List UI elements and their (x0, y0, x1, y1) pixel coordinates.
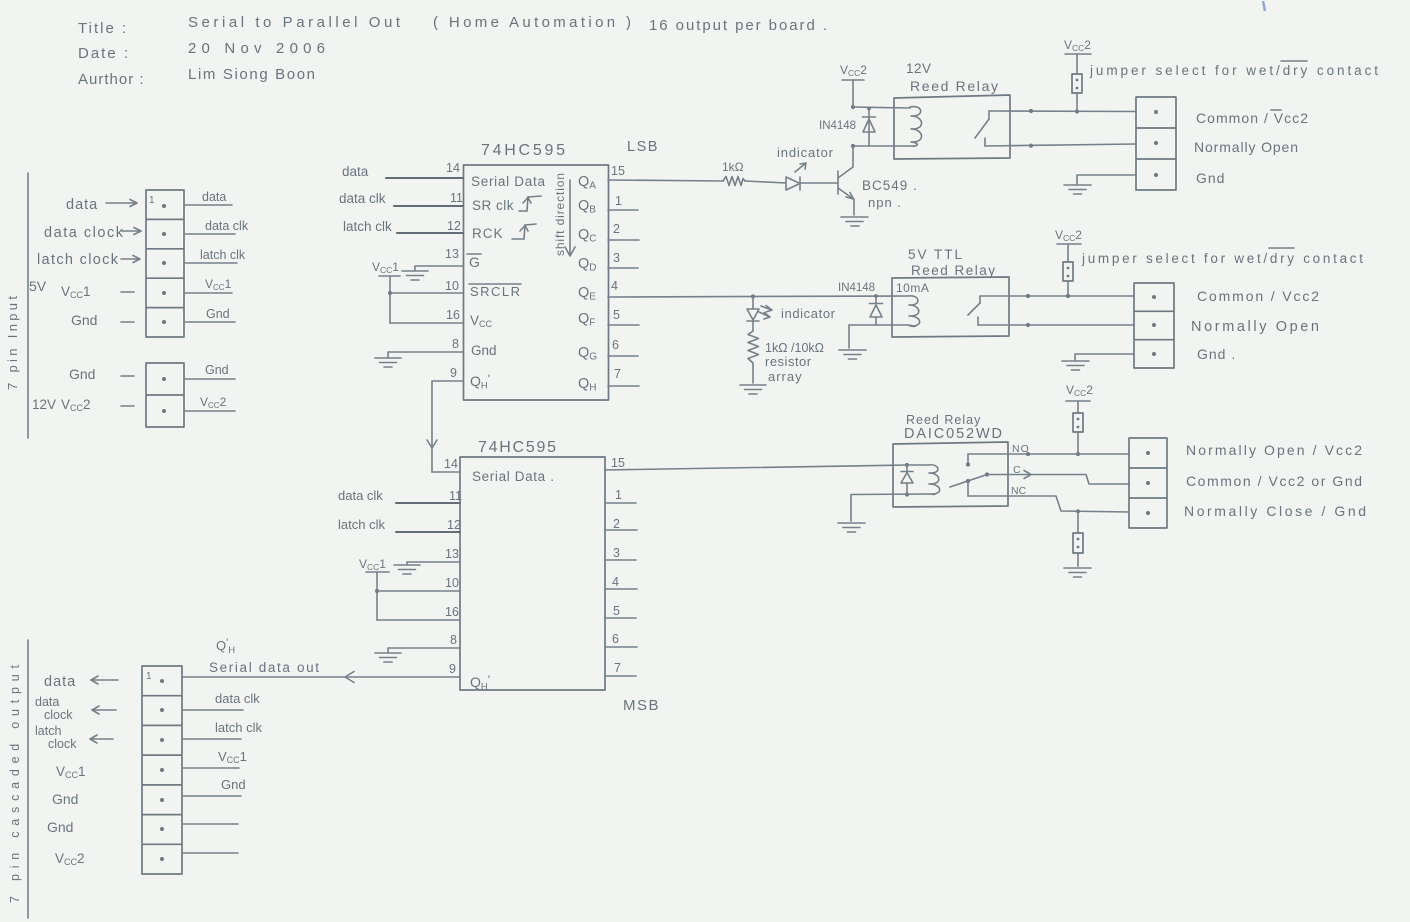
svg-text:8: 8 (452, 337, 459, 351)
wire coil bottom to collector (853, 145, 910, 147)
junction Vcc2 coil top (851, 105, 855, 109)
resistor R1 1k (723, 177, 745, 186)
wire Vcc2 to coil top (853, 107, 910, 108)
connector J2 body (1136, 97, 1176, 190)
svg-text:12V: 12V (32, 397, 56, 412)
svg-text:BC549 .: BC549 . (862, 178, 918, 193)
wire latch clk out of J1 (184, 248, 246, 263)
wire stub QD (608, 267, 638, 269)
relay K3 NO contact (966, 454, 970, 467)
wire data clk to U2 pin11 (396, 502, 460, 504)
jumper JP3 (1073, 413, 1083, 432)
junction diode top (867, 107, 871, 111)
svg-text:5: 5 (613, 308, 620, 322)
overline dry 2 (1269, 247, 1294, 249)
wire stub QG (608, 355, 638, 357)
wire K3 NC out with jog (968, 496, 1129, 512)
svg-text:Gnd: Gnd (205, 363, 229, 377)
svg-text:1kΩ /10kΩ: 1kΩ /10kΩ (765, 341, 824, 355)
wire Vcc1 to U1 pin16 (390, 322, 463, 324)
svg-text:9: 9 (449, 662, 456, 676)
junction K2 NO (1026, 323, 1030, 327)
svg-text:latch clock: latch clock (37, 252, 119, 268)
wire K3 coil bottom to ground (851, 494, 928, 521)
svg-text:Gnd: Gnd (206, 307, 230, 321)
svg-text:20 Nov 2006: 20 Nov 2006 (188, 40, 325, 57)
wire Vcc1 to U2 pin16 (377, 619, 460, 621)
wire stub QC (608, 239, 639, 241)
svg-text:latch clk: latch clk (200, 248, 246, 262)
LED D3 arrows (759, 306, 772, 320)
svg-text:latch clk: latch clk (338, 517, 385, 532)
ground at U1 pin8 (375, 358, 401, 367)
wire latch clk to U1 pin12 (397, 232, 463, 234)
svg-text:14: 14 (444, 457, 458, 471)
wire J3 pin3 to ground (1075, 354, 1134, 360)
wire Gnd out of J1 lower (184, 363, 235, 379)
wire U1 pin8 to ground (388, 352, 463, 357)
svg-text:3: 3 (613, 546, 620, 560)
7 pin cascaded output bracket line (27, 640, 29, 918)
svg-text:indicator: indicator (777, 145, 834, 160)
svg-text:Gnd: Gnd (69, 366, 95, 382)
arrowhead K3 C wire (1024, 471, 1031, 479)
svg-text:Normally Open: Normally Open (1191, 319, 1319, 335)
wire K3 NO out (968, 453, 1129, 455)
connector J4 body (1129, 438, 1167, 528)
node data clock out label (35, 695, 73, 722)
wire Vcc1 to U2 pin10 (377, 590, 460, 592)
connector J3 body (1134, 283, 1174, 368)
svg-text:Common / Vcc2 or Gnd: Common / Vcc2 or Gnd (1186, 473, 1362, 489)
junction indicator branch (751, 294, 755, 298)
connector J1 upper body (146, 190, 184, 337)
junction K1 common (1029, 109, 1033, 113)
wire data clk to U1 pin11 (394, 205, 463, 207)
power Vcc2 symbol output2 (1055, 228, 1082, 262)
ground at J3 pin3 (1062, 361, 1089, 370)
wire U2 pin15 to relay3 (605, 465, 907, 470)
svg-text:5V TTL: 5V TTL (908, 247, 964, 262)
resistor R2 array vertical (748, 321, 759, 383)
svg-text:DAIC052WD: DAIC052WD (904, 426, 1002, 442)
wire stub U2 pin4 (605, 588, 637, 590)
svg-text:data clk: data clk (205, 219, 249, 233)
svg-text:clock: clock (48, 737, 77, 751)
svg-text:Lim Siong Boon: Lim Siong Boon (188, 66, 315, 83)
svg-text:data: data (202, 190, 226, 204)
svg-text:Gnd: Gnd (71, 312, 97, 328)
junction JP2 common (1066, 294, 1070, 298)
junction Vcc1 to pin10 (388, 291, 392, 295)
svg-text:13: 13 (445, 547, 459, 561)
wire K1 common out (989, 110, 1136, 113)
arrowhead down on cascade wire (427, 440, 437, 448)
svg-text:2: 2 (613, 222, 620, 236)
ground at U2 pin8 (375, 653, 401, 662)
wire K2 NO out (978, 324, 1134, 326)
svg-text:Normally Close / Gnd: Normally Close / Gnd (1184, 503, 1366, 519)
svg-text:array: array (768, 369, 803, 384)
svg-text:1: 1 (615, 194, 622, 208)
junction K1 NO (1029, 144, 1033, 148)
connector J2 pin dots (1154, 110, 1158, 177)
svg-text:IN4148: IN4148 (838, 282, 875, 294)
svg-text:data clk: data clk (215, 691, 260, 706)
ground at R2 (740, 385, 766, 394)
junction K2 common (1026, 294, 1030, 298)
connector J3 pin dots (1152, 295, 1156, 356)
relay K3 blade (950, 472, 989, 487)
pin label SRCLR-bar U1 (469, 284, 521, 299)
ground at D4 (839, 350, 866, 359)
relay K2 switch bottom contact (977, 317, 979, 325)
wire Vcc1 out J5 (182, 749, 247, 768)
svg-text:indicator: indicator (781, 306, 836, 321)
wire data clk out of J1 (184, 219, 249, 234)
wire K1 NO out (985, 144, 1136, 146)
svg-text:15: 15 (611, 456, 625, 470)
shift direction arrow (565, 180, 575, 256)
svg-text:latch clk: latch clk (215, 720, 262, 735)
svg-text:2: 2 (613, 517, 620, 531)
svg-text:QH': QH' (470, 372, 490, 392)
wire dash Vcc2 (121, 405, 134, 407)
wire jumper JP4 to ground (1077, 553, 1079, 566)
wire QA pin15 to resistor (608, 180, 723, 181)
wire K3 coil top (907, 464, 928, 466)
wire arrow latch clock out (90, 735, 113, 743)
svg-text:data clk: data clk (339, 191, 386, 206)
svg-text:LSB: LSB (627, 139, 659, 155)
wire U2 pin13 to ground (407, 562, 460, 564)
junction K3 NC jumper (1076, 509, 1080, 513)
wire arrow data clock out (92, 706, 116, 714)
svg-text:6: 6 (612, 632, 619, 646)
wire stub QH (608, 385, 639, 387)
connector J1 lower body (146, 363, 184, 427)
ground at J2 pin3 (1064, 185, 1091, 194)
svg-text:10mA: 10mA (896, 281, 929, 295)
wire U1 pin13 to ground (415, 266, 463, 270)
wire pin7 out J5 (182, 852, 238, 854)
svg-text:latch clk: latch clk (343, 219, 392, 234)
svg-text:RCK: RCK (472, 226, 504, 241)
wire QE pin4 to relay2 coil (608, 296, 908, 297)
node latch clock out label (35, 724, 77, 751)
relay K2 body (892, 277, 1009, 337)
svg-text:shift direction: shift direction (553, 173, 567, 256)
svg-text:7 pin Input: 7 pin Input (5, 296, 20, 390)
wire data clk out J5 (182, 691, 260, 710)
svg-text:11: 11 (449, 489, 462, 503)
svg-text:16: 16 (445, 605, 459, 619)
wire resistor to LED D1 (745, 181, 786, 183)
power Vcc2 symbol output1 (1064, 38, 1091, 74)
relay K3 coil (928, 465, 940, 495)
svg-text:npn .: npn . (868, 195, 902, 210)
svg-text:Serial Data .: Serial Data . (472, 469, 554, 484)
svg-text:Date :: Date : (78, 45, 130, 62)
junction JP1 common (1075, 109, 1079, 113)
svg-text:data: data (342, 164, 369, 179)
svg-text:16: 16 (446, 308, 460, 322)
svg-text:10: 10 (445, 576, 459, 590)
svg-text:7: 7 (614, 367, 621, 381)
junction K3 NO jumper (1076, 452, 1080, 456)
wire data to U1 pin14 (386, 177, 463, 179)
LED D3 indicator vertical (747, 296, 759, 321)
wire stub U2 pin1 (605, 502, 636, 504)
svg-text:9: 9 (450, 366, 457, 380)
LED D1 indicator (786, 177, 800, 190)
svg-text:data clk: data clk (338, 488, 383, 503)
svg-text:Gnd: Gnd (471, 343, 497, 358)
ground at U2 pin13 (394, 565, 420, 574)
wire arrow data clock in (122, 228, 141, 235)
wire J2 pin3 to ground (1077, 175, 1136, 184)
svg-text:SRCLR: SRCLR (470, 284, 520, 299)
overline dry 1 (1281, 60, 1307, 62)
svg-text:12: 12 (447, 219, 461, 233)
wire D4 bottom to ground (848, 325, 850, 348)
wire cascade into U2 pin14 (432, 471, 460, 473)
connector J5 body (142, 666, 182, 874)
jumper JP1 (1072, 74, 1082, 93)
svg-text:Gnd: Gnd (52, 791, 78, 807)
svg-text:Gnd: Gnd (1196, 170, 1225, 186)
junction K3 diode top (905, 463, 909, 467)
svg-text:1: 1 (146, 671, 152, 682)
junction K3 diode bottom (905, 492, 909, 496)
wire latch clk to U2 pin12 (396, 531, 460, 533)
wire NC junction to jumper JP4 (1077, 511, 1079, 533)
wire stub U2 pin7 (605, 675, 636, 677)
power Vcc2 symbol output3 (1066, 383, 1093, 413)
ground at K3 coil (838, 523, 865, 532)
svg-text:latch: latch (35, 724, 61, 738)
relay K3 body (893, 442, 1008, 507)
overline V 1 (1271, 109, 1281, 111)
svg-text:16 output per board .: 16 output per board . (649, 17, 827, 34)
wire latch clk out J5 (182, 720, 262, 739)
svg-text:8: 8 (450, 633, 457, 647)
wire K2 common out (980, 295, 1134, 297)
wire arrow data in (106, 200, 137, 207)
svg-text:Serial data out: Serial data out (209, 660, 319, 675)
IC U2 body (460, 457, 605, 690)
jumper JP2 (1063, 262, 1073, 281)
junction collector coil bottom (851, 144, 855, 148)
node 12V Vcc2 label (32, 397, 91, 413)
diode D2 1N4148 flyback (863, 108, 876, 146)
ground at U1 pin13 (402, 271, 428, 280)
svg-text:4: 4 (611, 279, 618, 293)
svg-text:Normally Open: Normally Open (1194, 139, 1298, 155)
svg-text:11: 11 (450, 191, 463, 205)
svg-text:Title :: Title : (78, 20, 128, 37)
7 pin input bracket line (27, 173, 29, 438)
svg-text:4: 4 (612, 575, 619, 589)
svg-text:data: data (44, 674, 76, 690)
svg-text:Reed Relay: Reed Relay (906, 413, 981, 427)
svg-text:13: 13 (445, 247, 459, 261)
svg-text:12V: 12V (906, 61, 932, 76)
wire dash Gnd2 (121, 375, 134, 377)
wire jumper JP1 to common (1076, 93, 1078, 111)
svg-text:G: G (469, 254, 480, 270)
wire dash Gnd (121, 321, 134, 323)
svg-text:12: 12 (447, 518, 461, 532)
relay K1 switch top contact (988, 111, 990, 119)
wire arrow latch clock in (121, 256, 140, 263)
relay K1 switch bottom contact (984, 138, 986, 146)
svg-text:Aurthor :: Aurthor : (78, 71, 145, 88)
svg-text:1kΩ: 1kΩ (722, 160, 744, 174)
ground at JP4 (1064, 568, 1091, 577)
jumper JP4 (1073, 533, 1083, 553)
wire Vcc2 out of J1 lower (184, 395, 235, 411)
resistor R2 value label (765, 341, 824, 384)
pin label G-bar U1 (467, 254, 481, 270)
clock edge symbol RCK (512, 224, 536, 239)
svg-text:data clock: data clock (44, 225, 124, 241)
wire jumper JP3 to NO (1077, 432, 1079, 454)
relay K1 coil (910, 107, 922, 147)
svg-text:5: 5 (613, 604, 620, 618)
svg-text:SR clk: SR clk (472, 198, 514, 213)
connector J4 pin dots (1146, 451, 1150, 515)
diode D4 1N4148 (870, 296, 883, 325)
wire stub U2 pin2 (605, 529, 637, 531)
wire jumper JP2 to common (1067, 281, 1069, 296)
relay K1 body (894, 95, 1010, 159)
power Vcc1 symbol U1 (372, 260, 400, 323)
svg-text:74HC595: 74HC595 (481, 142, 565, 159)
junction D4 top (874, 294, 878, 298)
wire stub U2 pin3 (605, 559, 636, 561)
svg-text:Normally Open / Vcc2: Normally Open / Vcc2 (1186, 442, 1362, 458)
wire stub U2 pin5 (605, 617, 636, 619)
relay K1 switch blade (975, 119, 989, 138)
wire dash Vcc1 (121, 291, 134, 293)
svg-text:MSB: MSB (623, 697, 660, 714)
wire Gnd out of J1 (184, 307, 235, 322)
wire stub QF (608, 324, 639, 326)
wire Gnd out J5 (182, 777, 246, 796)
IC U1 body (464, 165, 609, 400)
LED D1 arrow (795, 163, 806, 172)
power Vcc1 symbol U2 (359, 557, 389, 620)
svg-text:1: 1 (615, 488, 622, 502)
svg-text:74HC595: 74HC595 (478, 439, 556, 456)
wire arrow data out (91, 676, 118, 684)
svg-text:6: 6 (612, 338, 619, 352)
relay K3 NC riser (967, 483, 969, 496)
svg-text:Common / Vcc2: Common / Vcc2 (1196, 110, 1308, 126)
svg-text:resistor: resistor (765, 354, 812, 369)
svg-text:clock: clock (44, 708, 73, 722)
wire stub QB (608, 209, 638, 211)
wire data out of J1 (184, 190, 232, 205)
clock edge symbol SR clk (519, 196, 541, 211)
junction K3 NO a (1026, 452, 1030, 456)
wire stub U2 pin6 (605, 646, 637, 648)
svg-text:Gnd: Gnd (221, 777, 246, 792)
svg-text:data: data (66, 197, 98, 213)
blue scan mark (1263, 1, 1265, 11)
connector J1 lower pin dots (162, 377, 166, 413)
svg-text:1: 1 (149, 195, 155, 206)
node 5V Vcc1 label (29, 278, 91, 300)
relay K2 coil (908, 296, 920, 327)
wire U1 pin9 QH' down to U2 pin14 (432, 381, 463, 472)
svg-text:14: 14 (446, 161, 460, 175)
wire U2 pin9 serial data out (182, 676, 460, 678)
svg-text:data: data (35, 695, 59, 709)
ground at Q1 emitter (841, 217, 868, 226)
svg-text:10: 10 (445, 279, 459, 293)
svg-text:7 pin cascaded output: 7 pin cascaded output (8, 664, 22, 903)
svg-text:Gnd: Gnd (47, 819, 73, 835)
svg-text:15: 15 (611, 164, 625, 178)
svg-text:QH': QH' (470, 673, 490, 693)
connector J1 pin dots (162, 204, 166, 324)
relay K2 switch top contact (979, 296, 981, 303)
power Vcc2 symbol relay1 (840, 63, 867, 107)
wire Vcc1 out of J1 (184, 277, 232, 293)
wire Vcc1 to U1 pin10 SRCLR (390, 292, 463, 294)
wire U2 pin8 to ground (388, 648, 460, 652)
diode D5 flyback (901, 465, 913, 495)
junction Vcc1 pin10 U2 (375, 589, 379, 593)
transistor Q1 BC549 (838, 146, 854, 215)
relay K2 switch blade (968, 303, 980, 315)
svg-text:3: 3 (613, 251, 620, 265)
wire D4 bottom to coil bottom (849, 324, 908, 326)
svg-text:Gnd .: Gnd . (1197, 346, 1236, 362)
svg-text:IN4148: IN4148 (819, 120, 856, 132)
connector J5 pin dots (160, 679, 164, 861)
wire pin6 out J5 (182, 823, 238, 825)
svg-text:5V: 5V (29, 278, 47, 294)
svg-text:7: 7 (614, 661, 621, 675)
svg-text:Serial Data: Serial Data (471, 174, 545, 189)
arrowhead serial data out (345, 672, 354, 683)
transistor Q1 label BC549 npn (862, 178, 918, 210)
wire K3 C out with jog (987, 475, 1129, 485)
wire LED to Q1 base (800, 182, 838, 184)
